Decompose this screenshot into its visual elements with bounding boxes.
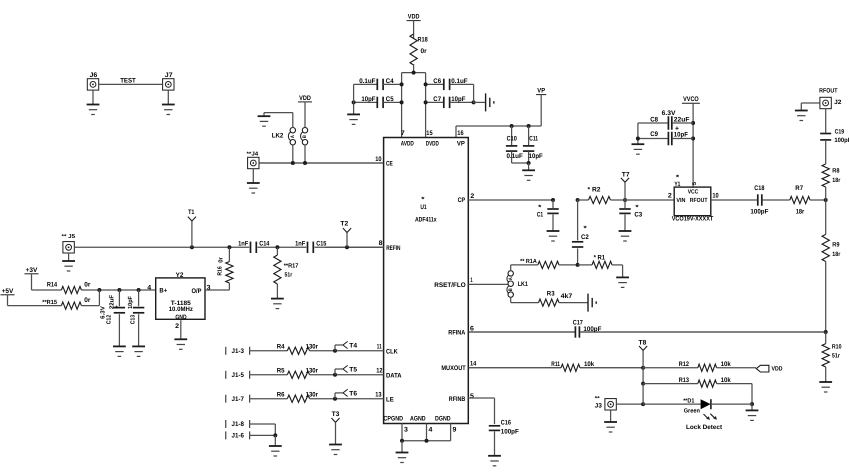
svg-text:R14: R14 bbox=[47, 282, 57, 289]
svg-text:J2: J2 bbox=[834, 99, 842, 106]
svg-text:C4: C4 bbox=[386, 78, 394, 85]
svg-text:MUXOUT: MUXOUT bbox=[441, 365, 465, 372]
svg-text:R4: R4 bbox=[277, 344, 285, 351]
svg-text:RSET/FLO: RSET/FLO bbox=[434, 282, 465, 289]
svg-text:C15: C15 bbox=[316, 241, 326, 248]
svg-text:5: 5 bbox=[692, 182, 698, 185]
svg-text:C6: C6 bbox=[433, 78, 441, 85]
svg-text:10pF: 10pF bbox=[127, 296, 134, 309]
svg-text:0r: 0r bbox=[84, 282, 91, 289]
svg-text:C16: C16 bbox=[501, 419, 511, 426]
svg-text:100pF: 100pF bbox=[834, 137, 849, 144]
svg-text:RFINA: RFINA bbox=[448, 329, 465, 336]
svg-text:CLK: CLK bbox=[386, 348, 398, 355]
svg-text:R3: R3 bbox=[547, 290, 555, 297]
svg-text:AGND: AGND bbox=[410, 415, 426, 422]
svg-text:*: * bbox=[421, 197, 425, 204]
svg-text:0r: 0r bbox=[84, 297, 91, 304]
svg-text:1nF: 1nF bbox=[295, 241, 305, 248]
svg-text:2: 2 bbox=[175, 323, 179, 330]
svg-text:VCO19V-XXXXT: VCO19V-XXXXT bbox=[672, 216, 714, 223]
svg-text:T2: T2 bbox=[340, 220, 348, 227]
svg-text:Y2: Y2 bbox=[176, 272, 184, 279]
svg-text:13: 13 bbox=[375, 392, 382, 399]
svg-text:Lock Detect: Lock Detect bbox=[686, 424, 723, 431]
svg-text:51r: 51r bbox=[285, 271, 293, 278]
svg-text:C11: C11 bbox=[529, 135, 538, 142]
svg-text:* R1: * R1 bbox=[594, 254, 606, 261]
svg-text:9: 9 bbox=[453, 427, 457, 434]
svg-text:0r: 0r bbox=[217, 257, 224, 263]
svg-text:1: 1 bbox=[470, 277, 473, 284]
svg-text:R18: R18 bbox=[418, 37, 428, 44]
svg-text:12: 12 bbox=[376, 368, 383, 375]
svg-text:RFOUT: RFOUT bbox=[690, 197, 708, 204]
svg-text:LK1: LK1 bbox=[518, 281, 528, 288]
svg-text:T1: T1 bbox=[188, 209, 195, 216]
svg-text:GND: GND bbox=[175, 314, 187, 321]
svg-text:8: 8 bbox=[379, 240, 383, 247]
svg-text:10k: 10k bbox=[721, 361, 731, 368]
svg-text:VVCO: VVCO bbox=[683, 96, 699, 103]
svg-text:*: * bbox=[584, 225, 588, 232]
svg-text:3: 3 bbox=[404, 427, 408, 434]
svg-text:VCC: VCC bbox=[688, 189, 699, 196]
svg-text:DGND: DGND bbox=[435, 415, 451, 422]
svg-text:Y1: Y1 bbox=[674, 181, 680, 188]
svg-text:18r: 18r bbox=[832, 177, 841, 184]
svg-text:22uF: 22uF bbox=[674, 116, 690, 123]
svg-text:16: 16 bbox=[457, 130, 464, 137]
svg-text:C7: C7 bbox=[433, 96, 441, 103]
svg-text:J1-8: J1-8 bbox=[232, 421, 245, 428]
svg-text:R7: R7 bbox=[795, 185, 803, 192]
svg-text:1nF: 1nF bbox=[238, 241, 248, 248]
svg-text:U1: U1 bbox=[420, 204, 427, 211]
svg-text:VDD: VDD bbox=[772, 365, 783, 372]
svg-text:C1: C1 bbox=[537, 212, 544, 219]
svg-text:C19: C19 bbox=[835, 128, 845, 135]
svg-text:R13: R13 bbox=[679, 377, 689, 384]
svg-text:R10: R10 bbox=[832, 343, 842, 350]
svg-text:100pF: 100pF bbox=[750, 208, 768, 215]
svg-text:RFOUT: RFOUT bbox=[819, 88, 837, 95]
svg-text:VDD: VDD bbox=[408, 14, 420, 21]
svg-text:C18: C18 bbox=[754, 185, 764, 192]
svg-text:10pF: 10pF bbox=[361, 96, 375, 103]
svg-text:VIN: VIN bbox=[676, 197, 685, 204]
svg-text:R8: R8 bbox=[832, 167, 840, 174]
svg-text:0.1uF: 0.1uF bbox=[359, 78, 375, 85]
svg-text:C17: C17 bbox=[573, 320, 583, 327]
svg-text:T7: T7 bbox=[622, 171, 630, 178]
svg-text:*: * bbox=[635, 205, 639, 212]
svg-text:DVDD: DVDD bbox=[426, 141, 439, 148]
svg-text:**R17: **R17 bbox=[284, 262, 299, 269]
svg-text:100pF: 100pF bbox=[501, 429, 519, 436]
svg-text:18r: 18r bbox=[796, 208, 805, 215]
svg-text:C13: C13 bbox=[129, 314, 136, 324]
svg-text:2: 2 bbox=[668, 193, 672, 200]
svg-text:LE: LE bbox=[386, 396, 394, 403]
svg-text:AVDD: AVDD bbox=[401, 141, 414, 148]
svg-text:7: 7 bbox=[401, 130, 405, 137]
svg-text:R5: R5 bbox=[277, 368, 285, 375]
svg-text:+5V: +5V bbox=[2, 288, 14, 295]
svg-text:A: A bbox=[290, 135, 296, 138]
svg-text:B+: B+ bbox=[159, 288, 167, 295]
svg-text:R16: R16 bbox=[217, 266, 224, 276]
svg-text:B: B bbox=[302, 135, 308, 138]
svg-text:130r: 130r bbox=[306, 344, 319, 351]
svg-text:**J4: **J4 bbox=[247, 151, 260, 157]
svg-text:18r: 18r bbox=[832, 251, 841, 258]
svg-text:J7: J7 bbox=[165, 72, 173, 79]
svg-text:T8: T8 bbox=[639, 339, 647, 346]
svg-text:J1-5: J1-5 bbox=[232, 372, 245, 379]
svg-text:10pF: 10pF bbox=[451, 96, 465, 103]
svg-text:0.1uF: 0.1uF bbox=[507, 153, 523, 160]
svg-text:ADF411x: ADF411x bbox=[415, 216, 437, 223]
svg-text:6.3V: 6.3V bbox=[662, 110, 677, 117]
svg-text:J6: J6 bbox=[90, 72, 98, 79]
svg-text:R11: R11 bbox=[551, 361, 560, 368]
svg-text:B: B bbox=[508, 288, 514, 291]
svg-text:R9: R9 bbox=[832, 241, 840, 248]
svg-text:2: 2 bbox=[470, 193, 474, 200]
svg-text:J3: J3 bbox=[595, 402, 603, 409]
svg-text:C2: C2 bbox=[581, 234, 589, 241]
svg-text:LK2: LK2 bbox=[272, 133, 284, 140]
svg-text:VDD: VDD bbox=[299, 95, 311, 102]
svg-text:11: 11 bbox=[377, 344, 382, 351]
svg-text:5: 5 bbox=[470, 393, 474, 400]
svg-text:C10: C10 bbox=[507, 135, 517, 142]
svg-text:T3: T3 bbox=[332, 411, 340, 418]
svg-text:R6: R6 bbox=[277, 392, 285, 399]
svg-text:100pF: 100pF bbox=[583, 326, 601, 333]
svg-text:CP: CP bbox=[458, 197, 466, 204]
svg-text:Green: Green bbox=[684, 408, 701, 415]
svg-text:VP: VP bbox=[457, 141, 466, 148]
svg-text:T5: T5 bbox=[349, 366, 357, 373]
svg-text:CE: CE bbox=[386, 161, 393, 168]
svg-text:J1-6: J1-6 bbox=[232, 433, 245, 440]
svg-text:** J5: ** J5 bbox=[62, 234, 76, 240]
svg-text:4: 4 bbox=[429, 427, 433, 434]
svg-text:C14: C14 bbox=[259, 241, 269, 248]
svg-text:+3V: +3V bbox=[26, 267, 38, 274]
svg-text:REFIN: REFIN bbox=[386, 245, 400, 252]
svg-text:**R15: **R15 bbox=[42, 299, 57, 306]
svg-text:15: 15 bbox=[426, 130, 433, 137]
svg-text:R12: R12 bbox=[679, 361, 689, 368]
svg-text:**D1: **D1 bbox=[683, 398, 695, 405]
svg-text:T4: T4 bbox=[349, 342, 357, 349]
svg-text:A: A bbox=[508, 277, 514, 280]
svg-text:* R2: * R2 bbox=[588, 187, 601, 194]
svg-text:130r: 130r bbox=[306, 392, 319, 399]
svg-text:C9: C9 bbox=[650, 131, 658, 138]
svg-text:** R1A: ** R1A bbox=[520, 258, 537, 265]
svg-text:10.0MHz: 10.0MHz bbox=[169, 306, 193, 313]
svg-text:C3: C3 bbox=[634, 212, 642, 219]
svg-text:C5: C5 bbox=[386, 96, 394, 103]
svg-text:130r: 130r bbox=[306, 368, 319, 375]
svg-text:51r: 51r bbox=[832, 352, 841, 359]
svg-text:*: * bbox=[538, 205, 542, 212]
svg-text:C12: C12 bbox=[106, 314, 113, 324]
svg-text:O/P: O/P bbox=[192, 288, 203, 295]
svg-text:10pF: 10pF bbox=[529, 153, 543, 160]
svg-text:J1-7: J1-7 bbox=[232, 396, 245, 403]
svg-text:RFINB: RFINB bbox=[449, 396, 466, 403]
svg-text:C8: C8 bbox=[650, 116, 658, 123]
svg-text:CPGND: CPGND bbox=[384, 415, 404, 422]
svg-text:6: 6 bbox=[470, 325, 474, 332]
svg-text:10k: 10k bbox=[584, 361, 594, 368]
svg-text:VP: VP bbox=[537, 88, 545, 95]
svg-text:J1-3: J1-3 bbox=[232, 348, 245, 355]
svg-text:6.3V: 6.3V bbox=[100, 306, 107, 319]
svg-text:0r: 0r bbox=[421, 48, 428, 55]
svg-text:10: 10 bbox=[712, 193, 719, 200]
svg-text:TEST: TEST bbox=[120, 78, 136, 85]
svg-text:T6: T6 bbox=[349, 390, 357, 397]
svg-text:4k7: 4k7 bbox=[561, 293, 573, 300]
svg-text:0.1uF: 0.1uF bbox=[451, 78, 467, 85]
svg-text:10pF: 10pF bbox=[674, 132, 688, 139]
svg-text:+: + bbox=[115, 305, 119, 311]
svg-text:4: 4 bbox=[147, 285, 151, 292]
svg-text:10: 10 bbox=[375, 156, 382, 163]
svg-text:14: 14 bbox=[470, 361, 477, 368]
svg-text:10k: 10k bbox=[721, 377, 731, 384]
svg-text:DATA: DATA bbox=[386, 372, 402, 379]
